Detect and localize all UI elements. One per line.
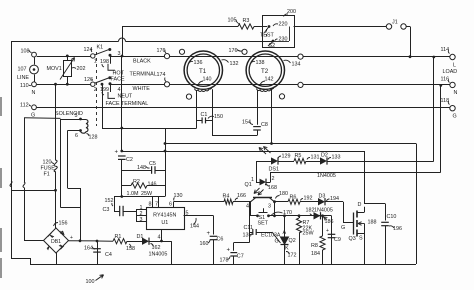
svg-text:WHITE: WHITE [133, 86, 151, 92]
K1 contact pole lower [91, 82, 95, 86]
wire C2 down [121, 159, 123, 196]
wire H151 [122, 151, 364, 153]
svg-text:SOLENOID: SOLENOID [55, 111, 83, 117]
diode D3 [318, 198, 325, 205]
terminal 118 load ground [450, 106, 455, 111]
svg-text:132: 132 [230, 61, 239, 67]
fuse F1 on wire to DB1 [54, 84, 57, 228]
resistor R1 [113, 239, 127, 244]
U1 pin 7 stub [158, 197, 160, 208]
resistor R3 [238, 24, 254, 29]
U1 pin 6 stub [173, 202, 175, 207]
svg-text:114: 114 [441, 47, 450, 53]
S2 blade lower [268, 42, 273, 47]
DB1 diode 4 [48, 233, 54, 237]
wire C8 to node [257, 130, 259, 136]
wire V60.5 down [60, 119, 62, 208]
diode D4 [314, 212, 321, 219]
svg-text:180: 180 [279, 191, 288, 197]
wire Q1 pin 2 riser [270, 172, 272, 182]
svg-text:Q3: Q3 [349, 236, 356, 242]
capacitor C3 [119, 206, 121, 216]
svg-text:142: 142 [265, 77, 274, 83]
wire circle above hot line T1 left [179, 49, 184, 54]
svg-text:N: N [32, 90, 36, 96]
wire test loop left [122, 26, 238, 28]
svg-text:Q2: Q2 [289, 238, 296, 244]
wire R8 to rail [322, 250, 324, 264]
wire H128 [102, 128, 197, 130]
wire V67.5 down [67, 131, 69, 189]
svg-text:DS1: DS1 [269, 167, 280, 173]
terminal 110 (line neutral) [32, 82, 37, 87]
svg-text:3: 3 [118, 51, 121, 57]
wire neut face tap [110, 84, 112, 92]
wire R2 row left [122, 185, 131, 187]
svg-text:5: 5 [186, 211, 189, 217]
wire inside box 200 [289, 27, 291, 42]
svg-text:5: 5 [75, 113, 78, 119]
svg-text:N: N [454, 90, 458, 96]
svg-text:199: 199 [100, 87, 109, 93]
wire R7 to rail [299, 233, 301, 264]
wire V24 upper [24, 118, 26, 182]
T1 winding lead left [196, 90, 198, 128]
wire V121.8 hot tap down [121, 56, 123, 151]
wire R7 top [299, 216, 301, 218]
capacitor C10 [381, 221, 389, 223]
svg-text:K: K [285, 246, 289, 252]
capacitor C7 [230, 252, 237, 254]
DS1 light arrow 2 [264, 147, 271, 154]
svg-text:133: 133 [332, 155, 341, 161]
Q1 light arrow 2 [258, 190, 264, 196]
svg-text:8: 8 [149, 202, 152, 208]
svg-text:SET: SET [258, 221, 269, 227]
K1 mechanical linkage dashed [96, 52, 98, 126]
T2 winding lead right [271, 89, 273, 143]
wire V165 [165, 128, 167, 197]
svg-text:108: 108 [21, 49, 30, 55]
transistor Q3 channel bar [356, 211, 358, 237]
wire 108 to source [34, 57, 36, 64]
resistor R2 [131, 183, 147, 188]
hot face terminal bracket [108, 64, 115, 70]
wire down to C3 [114, 197, 116, 212]
wire neutral line left segment [37, 84, 92, 86]
capacitor C4 [93, 248, 101, 250]
wire Q1 pin3 to R6 [275, 201, 289, 203]
svg-text:C11: C11 [244, 225, 254, 231]
wire V80 to R1 row [80, 188, 82, 241]
wire bottom rail [30, 264, 416, 266]
DB1 diode 2 [60, 245, 64, 249]
capacitor C6 [210, 235, 218, 237]
wire circle above hot line T1 right [242, 49, 247, 54]
svg-text:140: 140 [203, 77, 212, 83]
svg-text:138: 138 [256, 60, 265, 66]
wire SCR anode [284, 216, 286, 237]
left wire lower [11, 187, 13, 259]
resistor R7 [296, 218, 301, 233]
wire circle T2 lead [279, 94, 284, 99]
svg-text:R3: R3 [243, 18, 250, 24]
svg-text:C8: C8 [261, 122, 268, 128]
U1 pin 8 stub [152, 197, 154, 208]
wire to DS1 [256, 161, 271, 163]
svg-text:BLACK: BLACK [133, 59, 151, 65]
svg-text:RY4145N: RY4145N [153, 213, 176, 219]
wire C7 top [234, 242, 250, 244]
op-amp U1 RY4145N [147, 208, 185, 230]
resistor R6 [288, 199, 300, 204]
svg-text:160: 160 [200, 241, 209, 247]
S2 upper contact [268, 25, 271, 28]
U1 pin 2 stub [136, 215, 146, 217]
svg-text:196: 196 [393, 226, 402, 232]
toroid T1 inner [187, 54, 219, 86]
Q1 emitter lead [270, 198, 275, 202]
wire H188 jog [68, 188, 81, 190]
svg-text:1N4005: 1N4005 [314, 208, 333, 214]
svg-text:+: + [227, 248, 231, 254]
wire DS1 row to Q1 pin 1 [256, 161, 258, 182]
J1 pin 2 [401, 24, 406, 29]
svg-text:4: 4 [158, 235, 161, 241]
junction 186 [321, 214, 324, 217]
svg-text:C9: C9 [334, 237, 341, 243]
wire C5 row right [155, 170, 165, 172]
wire J1 to riser [406, 26, 410, 28]
wire pin5 to C6 [213, 216, 215, 235]
diode bridge DB1 outline [44, 228, 69, 253]
svg-text:C7: C7 [237, 254, 244, 260]
wire DB1 bottom to rail [56, 253, 58, 264]
svg-text:C10: C10 [387, 214, 397, 220]
K1 fixed contact lower [108, 76, 111, 79]
svg-text:128: 128 [89, 135, 98, 141]
svg-text:178: 178 [220, 258, 229, 264]
wire C7 lead [233, 243, 235, 251]
svg-text:G: G [453, 114, 457, 120]
K1 blade lower [95, 78, 109, 83]
svg-text:6: 6 [75, 133, 78, 139]
svg-text:C1: C1 [201, 112, 208, 118]
wire C4 down [97, 241, 99, 264]
U1 pin 3 stub [136, 221, 146, 223]
svg-text:202: 202 [77, 66, 86, 72]
svg-text:144: 144 [190, 224, 199, 230]
svg-text:NEUT: NEUT [118, 94, 133, 100]
svg-text:+: + [326, 228, 329, 234]
wire riser to load hot line [433, 57, 435, 161]
diode D1 [142, 238, 149, 245]
junction circle neutral line right of T2 [298, 82, 303, 87]
wire V171.6 to rail [171, 241, 173, 264]
Q3 drain connect [357, 212, 364, 214]
scan artifacts left edge [0, 97, 2, 116]
wire T1 lead to C1 [197, 120, 202, 122]
neut face terminal bracket [108, 92, 115, 98]
S2 linkage dashed [266, 29, 268, 37]
K1 terminal 4 dot [109, 82, 112, 85]
wire riser J1 to load hot [410, 27, 412, 57]
svg-text:S2: S2 [269, 43, 276, 49]
wire Q1 pin4 down [250, 202, 252, 216]
junction on load hot line [409, 55, 412, 58]
K1 fixed contact upper [108, 48, 111, 51]
svg-text:3: 3 [268, 204, 271, 210]
svg-text:C3: C3 [103, 207, 110, 213]
Q1 light arrow 1 [254, 188, 260, 194]
svg-text:1N4005: 1N4005 [317, 173, 336, 179]
wire pins 1-3 bus [136, 210, 138, 222]
wire neutral WHITE line to load [111, 84, 450, 86]
wire break squiggle V24 [23, 182, 25, 188]
svg-text:C6: C6 [217, 237, 224, 243]
svg-text:131: 131 [311, 155, 320, 161]
resistor R5 [294, 158, 306, 163]
wire down to Q3 gate [343, 202, 345, 223]
wire hot BLACK line to load [111, 56, 450, 58]
wire to C11 [250, 232, 253, 234]
wire SCR K to rail [284, 244, 286, 264]
DB1 diode 3 [47, 245, 51, 249]
svg-text:188: 188 [368, 220, 377, 226]
wire to gate bar [343, 222, 354, 224]
wire riser to load neutral line [440, 85, 442, 172]
diode D2 [320, 157, 327, 164]
wire Q3 drain riser [364, 151, 366, 203]
svg-text:136: 136 [194, 60, 203, 66]
svg-text:105: 105 [228, 18, 237, 24]
wire C3 right [123, 211, 136, 213]
svg-text:174: 174 [157, 72, 166, 78]
T1 winding lead right [212, 89, 214, 135]
switch S1 stem [263, 208, 265, 212]
wire test loop to J1 [294, 26, 387, 28]
svg-text:110: 110 [20, 83, 29, 89]
capacitor C11 [252, 229, 254, 235]
svg-text:A: A [283, 230, 287, 236]
wire C10 top [385, 204, 387, 221]
svg-text:FACE TERMINAL: FACE TERMINAL [106, 101, 149, 107]
wire Q1 pin3 down [274, 202, 276, 216]
S2 blade upper [265, 27, 270, 33]
wire DS1 to R5 [278, 161, 294, 163]
junction circle hot line right of T2 [298, 54, 303, 59]
Q1 phototransistor bar [253, 197, 272, 199]
svg-text:6: 6 [169, 202, 172, 208]
Q1 collector lead [251, 198, 256, 202]
svg-text:1N4005: 1N4005 [149, 252, 168, 258]
wire R1 to D1 [127, 241, 142, 243]
SCR cathode bar [281, 244, 289, 246]
wire C7 to rail [233, 256, 235, 264]
svg-text:K1: K1 [97, 45, 104, 51]
svg-text:LINE: LINE [17, 75, 29, 81]
svg-text:150: 150 [214, 114, 223, 120]
U1 pin 5 wire [184, 215, 214, 217]
svg-text:D: D [358, 202, 362, 208]
wire R2 row right [147, 185, 165, 187]
wire to fuse line [11, 190, 56, 192]
wire H135.5 [212, 135, 257, 137]
J1 pin 1 [386, 24, 391, 29]
wire DB1 left to V24 [24, 240, 44, 242]
wire C1 to T1 lead [206, 120, 212, 122]
wire R5 to D2 [306, 161, 320, 163]
junction at S2 lower contact [272, 40, 275, 43]
svg-text:1: 1 [251, 177, 254, 183]
capacitor C5 [151, 166, 153, 174]
capacitor C8 [253, 126, 261, 128]
svg-text:LOAD: LOAD [443, 69, 458, 75]
wire C6 to rail [213, 240, 215, 264]
wire node V249.5 [249, 202, 251, 243]
svg-text:116: 116 [441, 77, 450, 83]
K1 contact pole upper [91, 54, 95, 58]
svg-text:112: 112 [20, 103, 29, 109]
svg-text:F1: F1 [44, 172, 50, 178]
svg-text:7: 7 [155, 202, 158, 208]
wire R3 to S2 [254, 26, 267, 28]
wire source to 110 [34, 75, 36, 82]
junction circle hot line left of T1 [164, 54, 169, 59]
U1 pin 1 stub [136, 209, 146, 211]
wire hot line left segment [37, 56, 92, 58]
svg-text:C4: C4 [105, 252, 112, 258]
svg-text:4: 4 [246, 204, 249, 210]
U1 pin 4 stub [161, 229, 163, 241]
wire to R1 [97, 240, 113, 242]
wire D2 to load hot riser [327, 161, 434, 163]
terminal 108 (line hot) [32, 52, 37, 57]
svg-text:R5: R5 [295, 153, 302, 159]
wire solenoid top [61, 119, 87, 121]
svg-text:3: 3 [140, 217, 143, 223]
svg-text:130: 130 [174, 193, 183, 199]
Q3 source to rail [364, 224, 366, 265]
wire break squiggle left [10, 181, 12, 187]
svg-text:TERMINAL: TERMINAL [130, 72, 157, 78]
Q3 substrate arrow [358, 223, 365, 225]
wire MOV1 to neutral [67, 77, 69, 85]
wire V30 to rail [30, 258, 32, 264]
Q3 source connect [357, 233, 364, 235]
svg-text:176: 176 [229, 48, 238, 54]
svg-text:R1: R1 [115, 234, 122, 240]
svg-text:+: + [115, 150, 119, 156]
terminal 116 load neutral [450, 82, 455, 87]
svg-text:25W: 25W [303, 231, 315, 237]
wire Q1 pin2 to load neutral riser [271, 172, 441, 174]
resistor R8 [320, 236, 325, 250]
wire riser hot to test loop [122, 27, 124, 57]
junction riser on hot line [121, 55, 124, 58]
switch S1 bar [259, 212, 268, 214]
optocoupler Q1 LED [260, 179, 267, 186]
wire C5 row left [122, 170, 152, 172]
svg-text:R4: R4 [223, 194, 230, 200]
wire hot face tap [110, 56, 112, 64]
svg-text:T1: T1 [199, 68, 207, 75]
arrow figure 100 [96, 275, 104, 281]
junction fuse tap on neutral [54, 83, 57, 86]
toroid T1 outer [184, 51, 222, 89]
T2 winding lead left to C8 [257, 90, 259, 125]
wire row B left [250, 215, 258, 217]
svg-text:TEST: TEST [260, 33, 274, 39]
svg-text:100: 100 [86, 279, 95, 285]
svg-text:DB1: DB1 [51, 239, 61, 245]
wire C10 to rail [385, 226, 387, 264]
svg-text:107: 107 [18, 67, 27, 73]
wire row B right [269, 215, 332, 217]
Q1 LED anode wire [256, 182, 260, 184]
resistor R4 [224, 199, 233, 204]
svg-text:184: 184 [311, 251, 320, 257]
svg-text:135: 135 [243, 233, 252, 239]
svg-text:FACE: FACE [111, 77, 125, 83]
wire ground line full run [37, 107, 450, 109]
svg-text:G: G [341, 225, 345, 231]
toroid T2 outer [246, 51, 284, 89]
T1 winding 140 [195, 87, 213, 92]
AC source 107 LINE [30, 65, 39, 74]
capacitor C9 [328, 233, 336, 235]
capacitor C1 [201, 117, 203, 123]
svg-text:220: 220 [279, 22, 288, 28]
svg-text:4: 4 [118, 87, 121, 93]
wire H258 [11, 258, 30, 260]
svg-text:D3: D3 [319, 194, 326, 200]
Q1 LED cathode wire [266, 182, 271, 184]
solenoid coil 128 [80, 119, 87, 133]
wire H207.5 [61, 207, 81, 209]
wire circle T1 lead [186, 94, 191, 99]
wire D3 out [325, 201, 343, 203]
wire C3 left [114, 211, 120, 213]
svg-text:T2: T2 [261, 68, 269, 75]
svg-text:129: 129 [282, 154, 291, 160]
svg-text:158: 158 [126, 246, 135, 252]
svg-text:192: 192 [304, 196, 313, 202]
wire pin 6 to R4 [174, 201, 225, 203]
junction circle neutral line left of T1 [164, 82, 169, 87]
wire neutral tap down [102, 84, 104, 128]
svg-text:176: 176 [157, 48, 166, 54]
wire S2 common [273, 41, 289, 43]
wire V416 right loop [416, 144, 418, 265]
DS1 light arrow 1 [259, 148, 266, 155]
svg-text:C5: C5 [149, 161, 156, 167]
T2 winding 142 [257, 87, 275, 92]
svg-text:J1: J1 [392, 20, 398, 26]
capacitor C2 [118, 155, 126, 157]
svg-text:R8: R8 [311, 243, 318, 249]
wire V24 lower [24, 188, 26, 241]
Q3 gate bar [353, 213, 355, 235]
svg-text:118: 118 [441, 98, 450, 104]
wire solenoid top extension left [24, 117, 61, 120]
terminal 112 (line ground) [32, 105, 37, 110]
svg-text:2: 2 [272, 176, 275, 182]
toroid T2 inner [249, 54, 281, 86]
wire C11 to gate [256, 232, 272, 234]
svg-text:U1: U1 [161, 220, 168, 226]
svg-text:C2: C2 [126, 157, 133, 163]
